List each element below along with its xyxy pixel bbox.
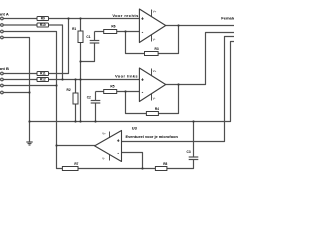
svg-text:Eventueel voor je microfoon: Eventueel voor je microfoon <box>126 134 179 139</box>
svg-text:Kant A: Kant A <box>0 11 9 16</box>
svg-text:R5: R5 <box>110 84 114 88</box>
svg-text:V-: V- <box>102 156 105 160</box>
svg-text:R4: R4 <box>155 107 159 111</box>
svg-text:Voor links: Voor links <box>115 74 138 79</box>
svg-text:R12: R12 <box>40 78 46 82</box>
svg-text:R11: R11 <box>40 72 46 76</box>
svg-text:R10: R10 <box>40 23 46 27</box>
svg-text:+: + <box>141 16 144 22</box>
svg-text:R1: R1 <box>72 27 76 31</box>
svg-text:V+: V+ <box>102 132 106 136</box>
svg-text:U3: U3 <box>132 126 138 131</box>
svg-text:R3: R3 <box>155 47 159 51</box>
svg-text:V-: V- <box>153 97 156 101</box>
svg-text:Voor rechts: Voor rechts <box>112 13 139 18</box>
svg-text:R6: R6 <box>111 25 115 29</box>
svg-text:V+: V+ <box>153 10 157 14</box>
svg-text:V-: V- <box>153 38 156 42</box>
svg-text:R2: R2 <box>67 88 71 92</box>
svg-text:+: + <box>117 138 120 144</box>
svg-text:C1: C1 <box>86 35 90 39</box>
svg-text:V+: V+ <box>153 69 157 73</box>
svg-text:C2: C2 <box>87 96 91 100</box>
svg-text:Kant B: Kant B <box>0 66 9 71</box>
svg-text:C3: C3 <box>187 150 191 154</box>
svg-text:R9: R9 <box>41 17 45 21</box>
svg-text:Female he: Female he <box>221 15 234 20</box>
svg-text:+: + <box>141 77 144 83</box>
svg-text:R8: R8 <box>163 162 167 166</box>
svg-text:R7: R7 <box>74 162 78 166</box>
